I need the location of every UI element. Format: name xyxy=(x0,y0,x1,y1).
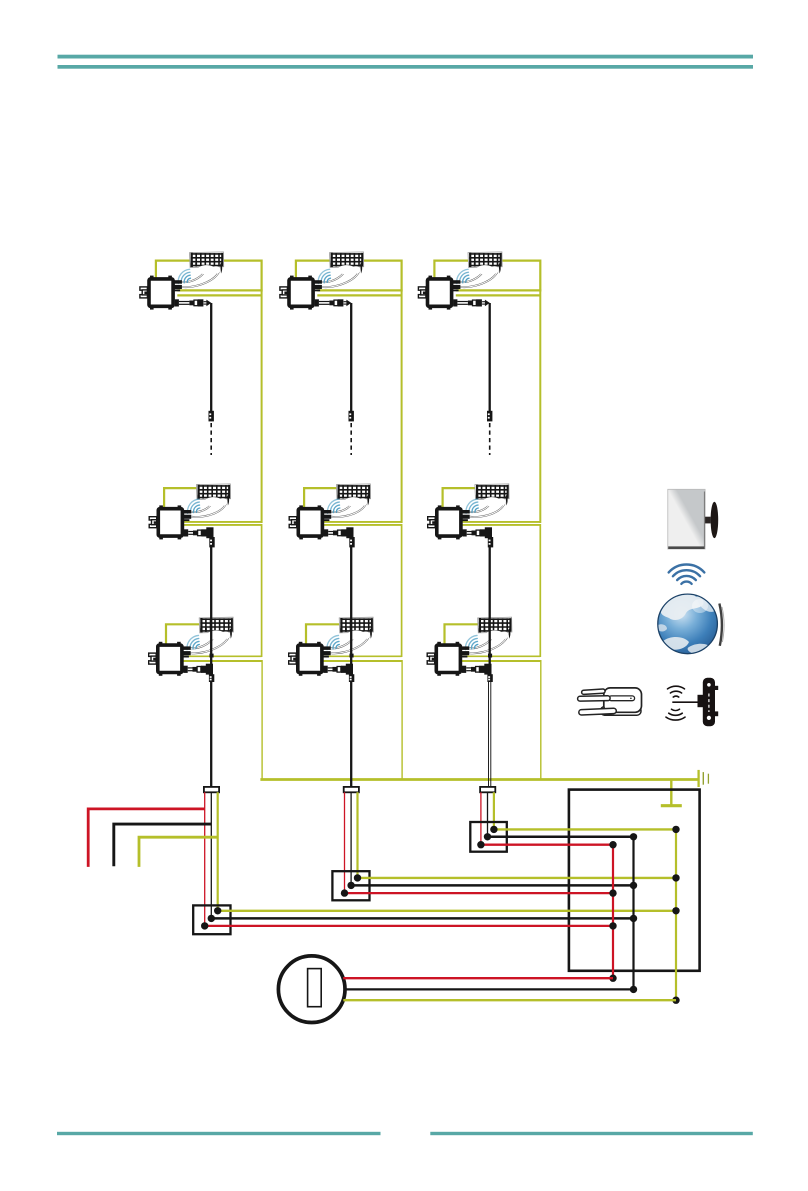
header rule top xyxy=(58,55,754,59)
trunk end cap col1 xyxy=(204,787,219,792)
AC trunk vertical row1-row2 col3 xyxy=(539,289,541,523)
DC cables row1 col1 xyxy=(182,265,220,287)
AC trunk loop row1 col1 xyxy=(156,261,262,291)
wifi waves row3 col1 xyxy=(187,635,199,649)
microinverter row2 col2 xyxy=(289,505,331,539)
wifi waves row1 col1 xyxy=(178,269,190,283)
DC connector pair col2 row2 xyxy=(349,537,354,547)
microinverter row1 col2 xyxy=(280,276,322,310)
AC branch top row2 col3 xyxy=(443,488,494,507)
AC trunk out row1 col3 xyxy=(456,294,541,296)
DC cable row1 down col2 xyxy=(350,303,352,411)
DC connector chain row1 col2 xyxy=(315,299,352,306)
PV panel row2 col2 xyxy=(336,484,370,506)
DC connector pair col1 row1-end xyxy=(209,411,214,422)
DC cable row3-cap col3 xyxy=(489,682,491,788)
earth stub xyxy=(661,780,682,806)
DC cables row3 col3 xyxy=(469,631,508,654)
DC connector pair col2 row1-end xyxy=(349,411,354,422)
AC trunk vertical row3-bus col3 xyxy=(540,660,542,780)
AC trunk vertical row1-row2 col2 xyxy=(401,289,403,523)
DC inline block col1 row3 xyxy=(210,654,214,658)
trunk end cap col2 xyxy=(344,787,359,792)
wifi router icon xyxy=(578,688,642,715)
DC connector pair col3 row3 xyxy=(487,674,492,682)
AC branch top row3 col1 xyxy=(166,624,217,644)
microinverter row3 col2 xyxy=(289,642,331,676)
microinverter row1 col1 xyxy=(140,276,182,310)
DC inline block col2 row3 xyxy=(350,654,354,658)
DC cable row2-row3 col1 xyxy=(210,538,212,665)
AC trunk out row1 col1 xyxy=(177,294,261,296)
DC cable row2-row3 col3 xyxy=(489,538,491,665)
AC trunk ports row3 col1 xyxy=(183,656,263,661)
junction box col3 xyxy=(470,822,507,852)
wifi icon blue xyxy=(669,564,705,583)
panel junction dots xyxy=(609,826,679,1004)
AC trunk vertical row2-row3 col2 xyxy=(401,524,403,657)
earth symbol right xyxy=(699,770,709,787)
AC trunk loop row1 col3 xyxy=(434,261,540,291)
grid stub red L xyxy=(88,809,205,867)
display monitor icon xyxy=(668,489,718,549)
PV panel row3 col2 xyxy=(339,617,373,639)
junction box col1 xyxy=(193,905,230,934)
AC trunk vertical row2-row3 col1 xyxy=(261,524,263,657)
PV panel row3 col3 xyxy=(478,617,512,639)
AC trunk ports row2 col3 xyxy=(461,522,540,525)
wifi waves row2 col1 xyxy=(187,499,199,513)
AC branch top row2 col1 xyxy=(164,488,215,507)
DC cable row1 down col3 xyxy=(489,303,491,411)
DC cable dashed col1 xyxy=(210,423,212,455)
footer rule left xyxy=(57,1132,381,1135)
meter wires xyxy=(343,978,676,1000)
AC trunk vertical row1-row2 col1 xyxy=(261,289,263,523)
DC cables row2 col1 xyxy=(191,497,227,517)
AC branch top row3 col3 xyxy=(445,624,496,644)
DC connector chain row3 col3 xyxy=(462,664,492,675)
AC/PE bus horizontal xyxy=(260,778,698,781)
DC cables row2 col3 xyxy=(470,497,506,517)
DC cables row1 col2 xyxy=(322,265,360,287)
microinverter row2 col1 xyxy=(149,505,191,539)
DC connector chain row1 col3 xyxy=(453,299,490,306)
AC trunk ports row2 col2 xyxy=(323,522,402,525)
DC connector chain row2 col3 xyxy=(463,527,493,538)
DC connector chain row2 col1 xyxy=(184,527,214,538)
DC connector chain row3 col2 xyxy=(324,664,354,675)
wifi waves row1 col3 xyxy=(457,269,469,283)
DC connector pair col1 row2 xyxy=(209,537,214,547)
PV panel row2 col1 xyxy=(196,484,230,506)
DC cables row1 col3 xyxy=(460,265,498,287)
DC cable row3-cap col1 xyxy=(210,682,212,788)
antenna DTU icon xyxy=(666,678,718,726)
DC cable row1 down col1 xyxy=(210,303,212,411)
DC connector pair col3 row1-end xyxy=(487,411,492,422)
trunk end cap col3 xyxy=(480,787,495,792)
PV panel row3 col1 xyxy=(199,617,233,639)
panel vertical PE yellow xyxy=(675,829,677,1000)
AC trunk ports row3 col2 xyxy=(323,656,403,661)
AC trunk ports row2 col1 xyxy=(183,522,262,525)
branch wires col3 xyxy=(477,826,676,849)
panel vertical L red xyxy=(612,845,614,979)
DC connector chain row2 col2 xyxy=(324,527,354,538)
cap wires col3 xyxy=(481,792,494,844)
DC cables row3 col2 xyxy=(331,631,370,654)
DC cable dashed col3 xyxy=(489,423,491,455)
wifi waves row2 col2 xyxy=(327,499,339,513)
DC cable row2-row3 col2 xyxy=(350,538,352,665)
AC branch top row3 col2 xyxy=(306,624,357,644)
DC connector chain row1 col1 xyxy=(175,299,212,306)
AC trunk vertical row3-bus col2 xyxy=(401,660,403,780)
microinverter row3 col1 xyxy=(149,642,191,676)
globe internet icon xyxy=(657,593,724,655)
DC cables row2 col2 xyxy=(331,497,367,517)
PV panel row2 col3 xyxy=(475,484,509,506)
PV panel row1 col2 xyxy=(330,252,364,274)
DC connector pair col2 row3 xyxy=(349,674,354,682)
wifi waves row3 col3 xyxy=(465,635,477,649)
AC trunk vertical row3-bus col1 xyxy=(261,660,263,780)
AC branch top row2 col2 xyxy=(304,488,355,507)
breaker panel box xyxy=(569,790,700,971)
AC trunk vertical row2-row3 col3 xyxy=(539,524,541,657)
AC trunk out row1 col2 xyxy=(317,294,401,296)
wifi waves row2 col3 xyxy=(466,499,478,513)
header rule bottom xyxy=(58,65,754,69)
PV panel row1 col3 xyxy=(468,252,502,274)
footer rule right xyxy=(430,1132,753,1135)
cap wires col2 xyxy=(345,792,358,893)
grid stub black N xyxy=(114,824,212,866)
energy meter xyxy=(278,956,345,1023)
microinverter row1 col3 xyxy=(418,276,460,310)
AC trunk loop row1 col2 xyxy=(296,261,402,291)
junction box col2 xyxy=(332,871,369,900)
DC connector pair col1 row3 xyxy=(209,674,214,682)
branch wires col2 xyxy=(341,874,676,897)
grid stub yellow PE xyxy=(139,837,218,867)
DC cable dashed col2 xyxy=(350,423,352,455)
microinverter row2 col3 xyxy=(428,505,470,539)
DC inline block col3 row3 xyxy=(488,654,492,658)
microinverter row3 col3 xyxy=(427,642,469,676)
DC cables row3 col1 xyxy=(191,631,230,654)
wifi waves row3 col2 xyxy=(327,635,339,649)
AC trunk ports row3 col3 xyxy=(461,656,541,661)
PV panel row1 col1 xyxy=(190,252,224,274)
branch wires col1 xyxy=(201,907,676,930)
panel vertical N black xyxy=(632,837,634,990)
DC connector chain row3 col1 xyxy=(184,664,214,675)
DC cable row3-cap col2 xyxy=(350,682,352,788)
wifi waves row1 col2 xyxy=(318,269,330,283)
DC connector pair col3 row2 xyxy=(488,537,493,547)
cap wires col1 xyxy=(205,792,218,926)
globe crescent xyxy=(719,604,722,646)
